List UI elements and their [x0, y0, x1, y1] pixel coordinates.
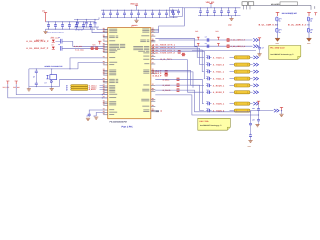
wire crystal top: [29, 68, 78, 70]
IC U1 right pin stubs and numbers: [151, 28, 156, 112]
resistor R16: [234, 102, 250, 105]
svg-text:JP?: JP?: [252, 119, 255, 122]
note box DNI: [198, 118, 231, 130]
svg-text:C?: C?: [207, 54, 209, 57]
capacitor C16 bypass: [90, 22, 92, 25]
resistor array row RNA1: [71, 87, 88, 89]
wire crystal to OSC2 pin: [78, 63, 103, 69]
offsheet arrow row 1: [253, 63, 258, 66]
svg-text:GND: GND: [307, 42, 311, 45]
power on row B first: [197, 43, 200, 46]
power into pin area: [98, 41, 101, 44]
svg-text:Part 1 PIC: Part 1 PIC: [122, 126, 134, 129]
wire net to jumper 2: [307, 24, 309, 26]
wire nested B: [155, 95, 258, 115]
wire top-left bank bottom rail: [46, 28, 96, 30]
wire crystal bottom: [29, 86, 60, 88]
svg-text:A_RXD0_1: A_RXD0_1: [213, 84, 225, 87]
wire chain C mid: [250, 127, 252, 133]
svg-text:A_TXD0_1: A_TXD0_1: [213, 56, 225, 59]
capacitor CL1: [61, 39, 62, 44]
IC U1 left pin stubs and numbers: [103, 28, 108, 115]
svg-text:DNI / TBD:: DNI / TBD:: [200, 120, 210, 123]
svg-text:A_RXD0_2: A_RXD0_2: [213, 91, 225, 94]
svg-text:A?: A?: [94, 114, 96, 117]
wire row8 stub down: [281, 111, 283, 115]
wire power rail 1 to IC VDD: [8, 84, 108, 98]
offsheet arrow row A: [253, 38, 258, 41]
ferrite bead FB12: [208, 70, 210, 73]
wire out of resistor R12: [250, 71, 253, 73]
wire staircase 6: [188, 60, 204, 93]
svg-text:A?: A?: [87, 114, 89, 117]
power pull row8: [280, 107, 283, 110]
capacitor C12 bypass: [62, 22, 64, 25]
capacitor C44: [228, 8, 230, 11]
power bar far right: [314, 13, 317, 16]
capacitor C210 bypass: [173, 10, 175, 13]
wire CX mid: [35, 75, 37, 81]
capacitor C24 bypass: [131, 10, 133, 13]
resistor network RN2b: [182, 53, 186, 55]
wire crystal to OSC1 pin: [70, 58, 103, 69]
ferrite bead FB14: [208, 84, 210, 87]
wire crystal stem bottom: [51, 80, 53, 87]
ferrite bead FB13: [208, 77, 210, 80]
capacitor C31: [85, 19, 87, 22]
capacitor C13 bypass: [69, 22, 71, 25]
resistor R15: [234, 91, 250, 94]
svg-text:D?: D?: [52, 43, 54, 46]
wire AVSS pin: [96, 113, 103, 117]
capacitor C41: [207, 8, 209, 11]
svg-text:ABM3B-24.000MHZ-B2: ABM3B-24.000MHZ-B2: [44, 65, 62, 68]
capacitor C42: [214, 8, 216, 11]
wire jumper 1 mid: [277, 21, 279, 28]
svg-text:JP?: JP?: [252, 107, 255, 110]
IC U1 right pin names: [133, 29, 149, 112]
capacitor C28 bypass: [159, 10, 161, 13]
svg-text:3V3_AN: 3V3_AN: [13, 86, 20, 89]
wire jumper 2 to ground: [308, 32, 310, 38]
svg-text:B_MDC: B_MDC: [163, 78, 170, 81]
capacitor CX1: [35, 69, 37, 71]
svg-text:B_UL_SCL: B_UL_SCL: [74, 45, 82, 48]
power on row A second: [217, 37, 220, 40]
resistor RJ1 upper: [276, 17, 278, 21]
wire into resistor R16: [230, 103, 235, 105]
wire staircase 7: [155, 79, 204, 103]
capacitor C29 bypass: [166, 10, 168, 13]
svg-text:B_UL_SDA: B_UL_SDA: [75, 49, 84, 52]
box on top bus: [280, 2, 298, 5]
svg-text:C?: C?: [207, 61, 209, 64]
wire staircase 3: [155, 50, 204, 72]
svg-text:A_UL_ADR_0_3: A_UL_ADR_0_3: [231, 39, 245, 42]
offsheet arrow row 0: [253, 56, 258, 59]
capacitor C22 bypass: [117, 10, 119, 13]
capacitor CX2: [35, 81, 37, 83]
wire into resistor R14: [230, 84, 235, 86]
wire out of resistor R11: [250, 64, 253, 66]
capacitor on row A: [207, 38, 209, 41]
svg-text:GND: GND: [228, 23, 233, 26]
svg-text:5V0: 5V0: [93, 43, 96, 46]
capacitor C20 bypass: [103, 10, 105, 13]
wire out of resistor R15: [250, 91, 253, 93]
wire row8 extension: [250, 110, 274, 112]
no-connect circle: [50, 81, 52, 83]
capacitor chain B2: [258, 104, 260, 107]
wire IC top right pins to vertical: [155, 28, 158, 30]
wire bank3 to IC pin VDD2: [92, 27, 108, 33]
svg-text:C?: C?: [58, 36, 60, 39]
bead on row A: [226, 39, 230, 41]
ground chain A: [257, 54, 261, 56]
svg-text:C?: C?: [207, 68, 209, 71]
ferrite bead FB17: [208, 109, 210, 112]
svg-text:B_DL_RXD0_ETH_1: B_DL_RXD0_ETH_1: [153, 44, 176, 47]
wire nested A: [155, 90, 250, 121]
power +3V3 rail top-left: [44, 13, 47, 22]
resistor array row RNA0: [71, 85, 88, 87]
wire staircase 1: [155, 47, 204, 58]
wire row L1 to IC: [62, 41, 103, 46]
ground VCAP: [86, 118, 90, 120]
wire staircase 5: [155, 70, 204, 85]
ground crystal mid: [51, 87, 53, 89]
wire staircase 8: [155, 85, 204, 111]
offsheet arrow row 3: [253, 77, 258, 80]
offsheet arrow row 5: [253, 91, 258, 94]
svg-text:GND: GND: [276, 42, 280, 45]
svg-text:C? C? C? C? C? C? C?: C? C? C? C? C? C? C?: [47, 31, 64, 34]
tick mark right: [314, 6, 316, 9]
ground chain B: [258, 122, 260, 124]
wire into resistor R17: [230, 110, 235, 112]
component at GD_OFF pin: [156, 110, 160, 112]
wire out of resistor R13: [250, 78, 253, 80]
capacitor chain B3: [258, 118, 260, 120]
wire bank3 to bank2 rail: [98, 17, 100, 19]
resistor network RN3b: [164, 74, 168, 76]
ferrite bead FB10: [208, 56, 210, 59]
wire RNA1 to IC: [100, 87, 104, 89]
TVS diode D2: [52, 47, 55, 50]
wire out of resistor R16: [250, 103, 253, 105]
svg-text:A_TXD1_2: A_TXD1_2: [213, 78, 225, 81]
power chain B2 top: [257, 101, 260, 104]
wire bank4 rail to box: [183, 7, 199, 9]
wire row L2 to IC: [62, 47, 103, 49]
wire chain B2 mid: [258, 112, 260, 119]
resistor R12: [234, 70, 250, 73]
series resistor RS2: [95, 47, 99, 49]
boxed capacitor group C5: [170, 8, 183, 17]
svg-text:B_MDIO: B_MDIO: [163, 84, 171, 87]
ground chain C: [248, 140, 252, 142]
capacitor C21 bypass: [110, 10, 112, 13]
capacitor C10 bypass: [48, 22, 50, 25]
svg-text:C?: C?: [207, 89, 209, 92]
wire crystal left vertical: [28, 69, 30, 87]
resistor RJ1 lower: [276, 28, 278, 32]
capacitor C43: [221, 8, 223, 11]
resistor RJ2 upper: [307, 17, 309, 21]
wire crystal stem top: [51, 69, 53, 75]
wire out of resistor R14: [250, 84, 253, 86]
resistor array row RNA2: [71, 89, 88, 91]
IC U1 left pin names: [109, 29, 125, 115]
capacitor C26 bypass: [145, 10, 147, 13]
wire top bus line: [254, 5, 311, 9]
capacitor CL2: [61, 46, 62, 51]
resistor network RN2a: [177, 51, 181, 53]
wire into resistor R11: [230, 64, 235, 66]
power +3V3_AN left: [15, 81, 18, 84]
ground row8: [279, 114, 283, 116]
svg-text:A_TXD0_2: A_TXD0_2: [213, 64, 225, 67]
capacitor on row B: [207, 45, 209, 48]
capacitor C27 bypass: [152, 10, 154, 13]
wire into resistor R10: [230, 56, 235, 58]
ferrite bead FB11: [208, 63, 210, 66]
power on row A first: [197, 37, 200, 40]
svg-text:1k: 1k: [279, 31, 281, 34]
svg-text:B_CLKO: B_CLKO: [163, 89, 171, 92]
svg-text:C?: C?: [205, 42, 207, 45]
IC U1 PIC32 body: [108, 28, 151, 119]
power chain A top: [258, 38, 261, 41]
svg-text:C?: C?: [207, 107, 209, 110]
ground AVSS: [94, 117, 98, 119]
wire row A (y=40.0): [159, 39, 253, 41]
svg-text:1k: 1k: [310, 31, 312, 34]
wire staircase 6b: [155, 72, 193, 88]
wire staircase 2: [155, 48, 204, 64]
svg-text:1k: 1k: [310, 20, 312, 23]
wire net to jumper 1: [275, 24, 278, 26]
resistor R10: [234, 56, 250, 59]
TVS diode D1: [52, 40, 55, 43]
svg-text:PIC_SWD note!: PIC_SWD note!: [270, 47, 285, 50]
wire into resistor R15: [230, 91, 235, 93]
wire bank4 bottom rail: [198, 15, 241, 17]
ground bank2: [136, 17, 138, 20]
capacitor C25 bypass: [138, 10, 140, 13]
offsheet arrow row 6: [253, 102, 258, 105]
svg-text:MX-ADDR: MX-ADDR: [271, 3, 280, 6]
wire box group to IC: [159, 8, 185, 33]
capacitor chain A: [259, 41, 261, 46]
svg-text:C? C? C?: C? C? C?: [75, 28, 83, 31]
ground jumper 1: [275, 38, 280, 41]
svg-text:3V3: 3V3: [42, 9, 45, 12]
svg-text:C?: C?: [207, 75, 209, 78]
svg-text:PIC32MZ2048EFM: PIC32MZ2048EFM: [110, 121, 127, 124]
svg-text:B_UL_ADR_0_1: B_UL_ADR_0_1: [259, 24, 278, 27]
wire bank2 bottom rail: [101, 16, 178, 18]
svg-text:3V3_PIC: 3V3_PIC: [3, 86, 11, 89]
wire jumper 1 to ground: [277, 32, 279, 38]
wire chain C to ground: [250, 138, 252, 140]
wire power rail 2 to IC VDD: [16, 84, 108, 94]
svg-text:B_SWCLK: B_SWCLK: [89, 84, 98, 87]
power +3V3_PIC left: [6, 81, 9, 84]
offsheet arrow row 4: [253, 84, 258, 87]
ground bank4: [231, 16, 233, 19]
wire B_UL_TXCL: [155, 59, 187, 61]
resistor RJ2 lower: [307, 28, 309, 32]
resistor R11: [234, 63, 250, 66]
wire bank2 top rail: [101, 9, 178, 11]
wire bank3 top rail: [74, 18, 99, 20]
capacitor VCAP: [88, 113, 90, 114]
svg-text:C?: C?: [45, 81, 47, 84]
svg-text:A_TXD1_1: A_TXD1_1: [213, 71, 225, 74]
wire PGD return: [59, 80, 103, 87]
power bar jumper 2: [307, 12, 311, 16]
connector header J1 block B: [248, 2, 254, 6]
wire into resistor R13: [230, 78, 235, 80]
resistor R17: [234, 109, 250, 112]
svg-text:D_DL2_P: D_DL2_P: [153, 72, 162, 75]
capacitor C23 bypass: [124, 10, 126, 13]
wire RNA0 to IC: [100, 85, 104, 87]
capacitor C14 bypass: [76, 22, 78, 25]
power VDD_IO bank2: [136, 5, 138, 10]
svg-text:3V3: 3V3: [215, 30, 218, 33]
svg-text:A_TXEN_1: A_TXEN_1: [213, 103, 225, 106]
wire bank3 to IC pin VDD1: [97, 27, 108, 30]
svg-text:C?: C?: [262, 46, 264, 49]
capacitor C45: [235, 8, 237, 11]
wire bank4 top rail: [198, 7, 241, 9]
offsheet arrow row8: [274, 109, 279, 112]
note box PIC_SWD: [269, 46, 301, 60]
svg-text:C?: C?: [207, 82, 209, 85]
crystal Y1 body: [50, 75, 57, 80]
capacitor chain C2: [250, 133, 252, 135]
wire from pin to row B: [155, 38, 194, 46]
ground jumper 2: [307, 38, 312, 41]
capacitor C11 bypass: [55, 22, 57, 25]
resistor RN4b: [176, 84, 180, 86]
svg-text:D?: D?: [52, 36, 54, 39]
svg-text:GND: GND: [248, 145, 252, 148]
wire chain A: [259, 51, 261, 54]
offsheet arrow row B: [253, 45, 258, 48]
wire out of resistor R10: [250, 56, 253, 58]
svg-text:C?: C?: [207, 100, 209, 103]
resistor RN4a: [176, 78, 180, 80]
capacitor C40: [200, 8, 202, 11]
capacitor chain C1: [250, 121, 252, 123]
svg-text:C?: C?: [58, 43, 60, 46]
svg-text:A_UL_ADR_0_4: A_UL_ADR_0_4: [231, 45, 246, 48]
wire staircase 4: [155, 52, 204, 79]
resistor network RN3: [164, 71, 168, 73]
capacitor C32: [94, 19, 96, 22]
wire row C plain: [192, 49, 256, 51]
svg-text:1k: 1k: [279, 20, 281, 23]
power bar jumper 1: [276, 12, 280, 16]
wire RNA2 to IC: [100, 88, 104, 90]
svg-text:C?: C?: [205, 36, 207, 39]
svg-text:B_UL_ADR_0_2: B_UL_ADR_0_2: [288, 24, 307, 27]
offsheet arrow row 2: [253, 70, 258, 73]
ferrite bead FB16: [208, 102, 210, 105]
resistor RN4c: [176, 89, 180, 91]
ground top-left bank: [45, 29, 47, 31]
svg-text:3V3: 3V3: [195, 30, 198, 33]
power bank4: [210, 3, 212, 7]
connector header J1 block A: [242, 2, 248, 6]
svg-text:D_DL3_P: D_DL3_P: [153, 75, 162, 78]
wire jumper 2 mid: [308, 21, 310, 28]
wire into resistor R12: [230, 71, 235, 73]
bead on row B: [226, 45, 230, 47]
series resistor RS1: [90, 47, 94, 49]
svg-text:C?: C?: [33, 75, 35, 78]
wire header pins: [244, 5, 251, 9]
capacitor C30: [77, 19, 79, 22]
wire bank3 bottom rail: [74, 26, 99, 28]
svg-text:MX-ADDR(B) WS: MX-ADDR(B) WS: [282, 12, 298, 15]
svg-text:A_UL_MXA_DAT_P: A_UL_MXA_DAT_P: [26, 47, 49, 50]
resistor R14: [234, 84, 250, 87]
capacitor C15 bypass: [83, 22, 85, 25]
svg-text:R?: R?: [66, 84, 68, 87]
ground crystal left: [28, 87, 30, 89]
wire VCAP pin: [89, 110, 103, 113]
resistor R13: [234, 77, 250, 80]
wire top-left bank top rail: [46, 21, 96, 23]
wire row B (y=46.2): [195, 45, 253, 47]
ferrite bead FB15: [208, 91, 210, 94]
svg-text:A_UL_MXA_CLK_P: A_UL_MXA_CLK_P: [26, 40, 49, 43]
power on row B second: [217, 43, 220, 46]
